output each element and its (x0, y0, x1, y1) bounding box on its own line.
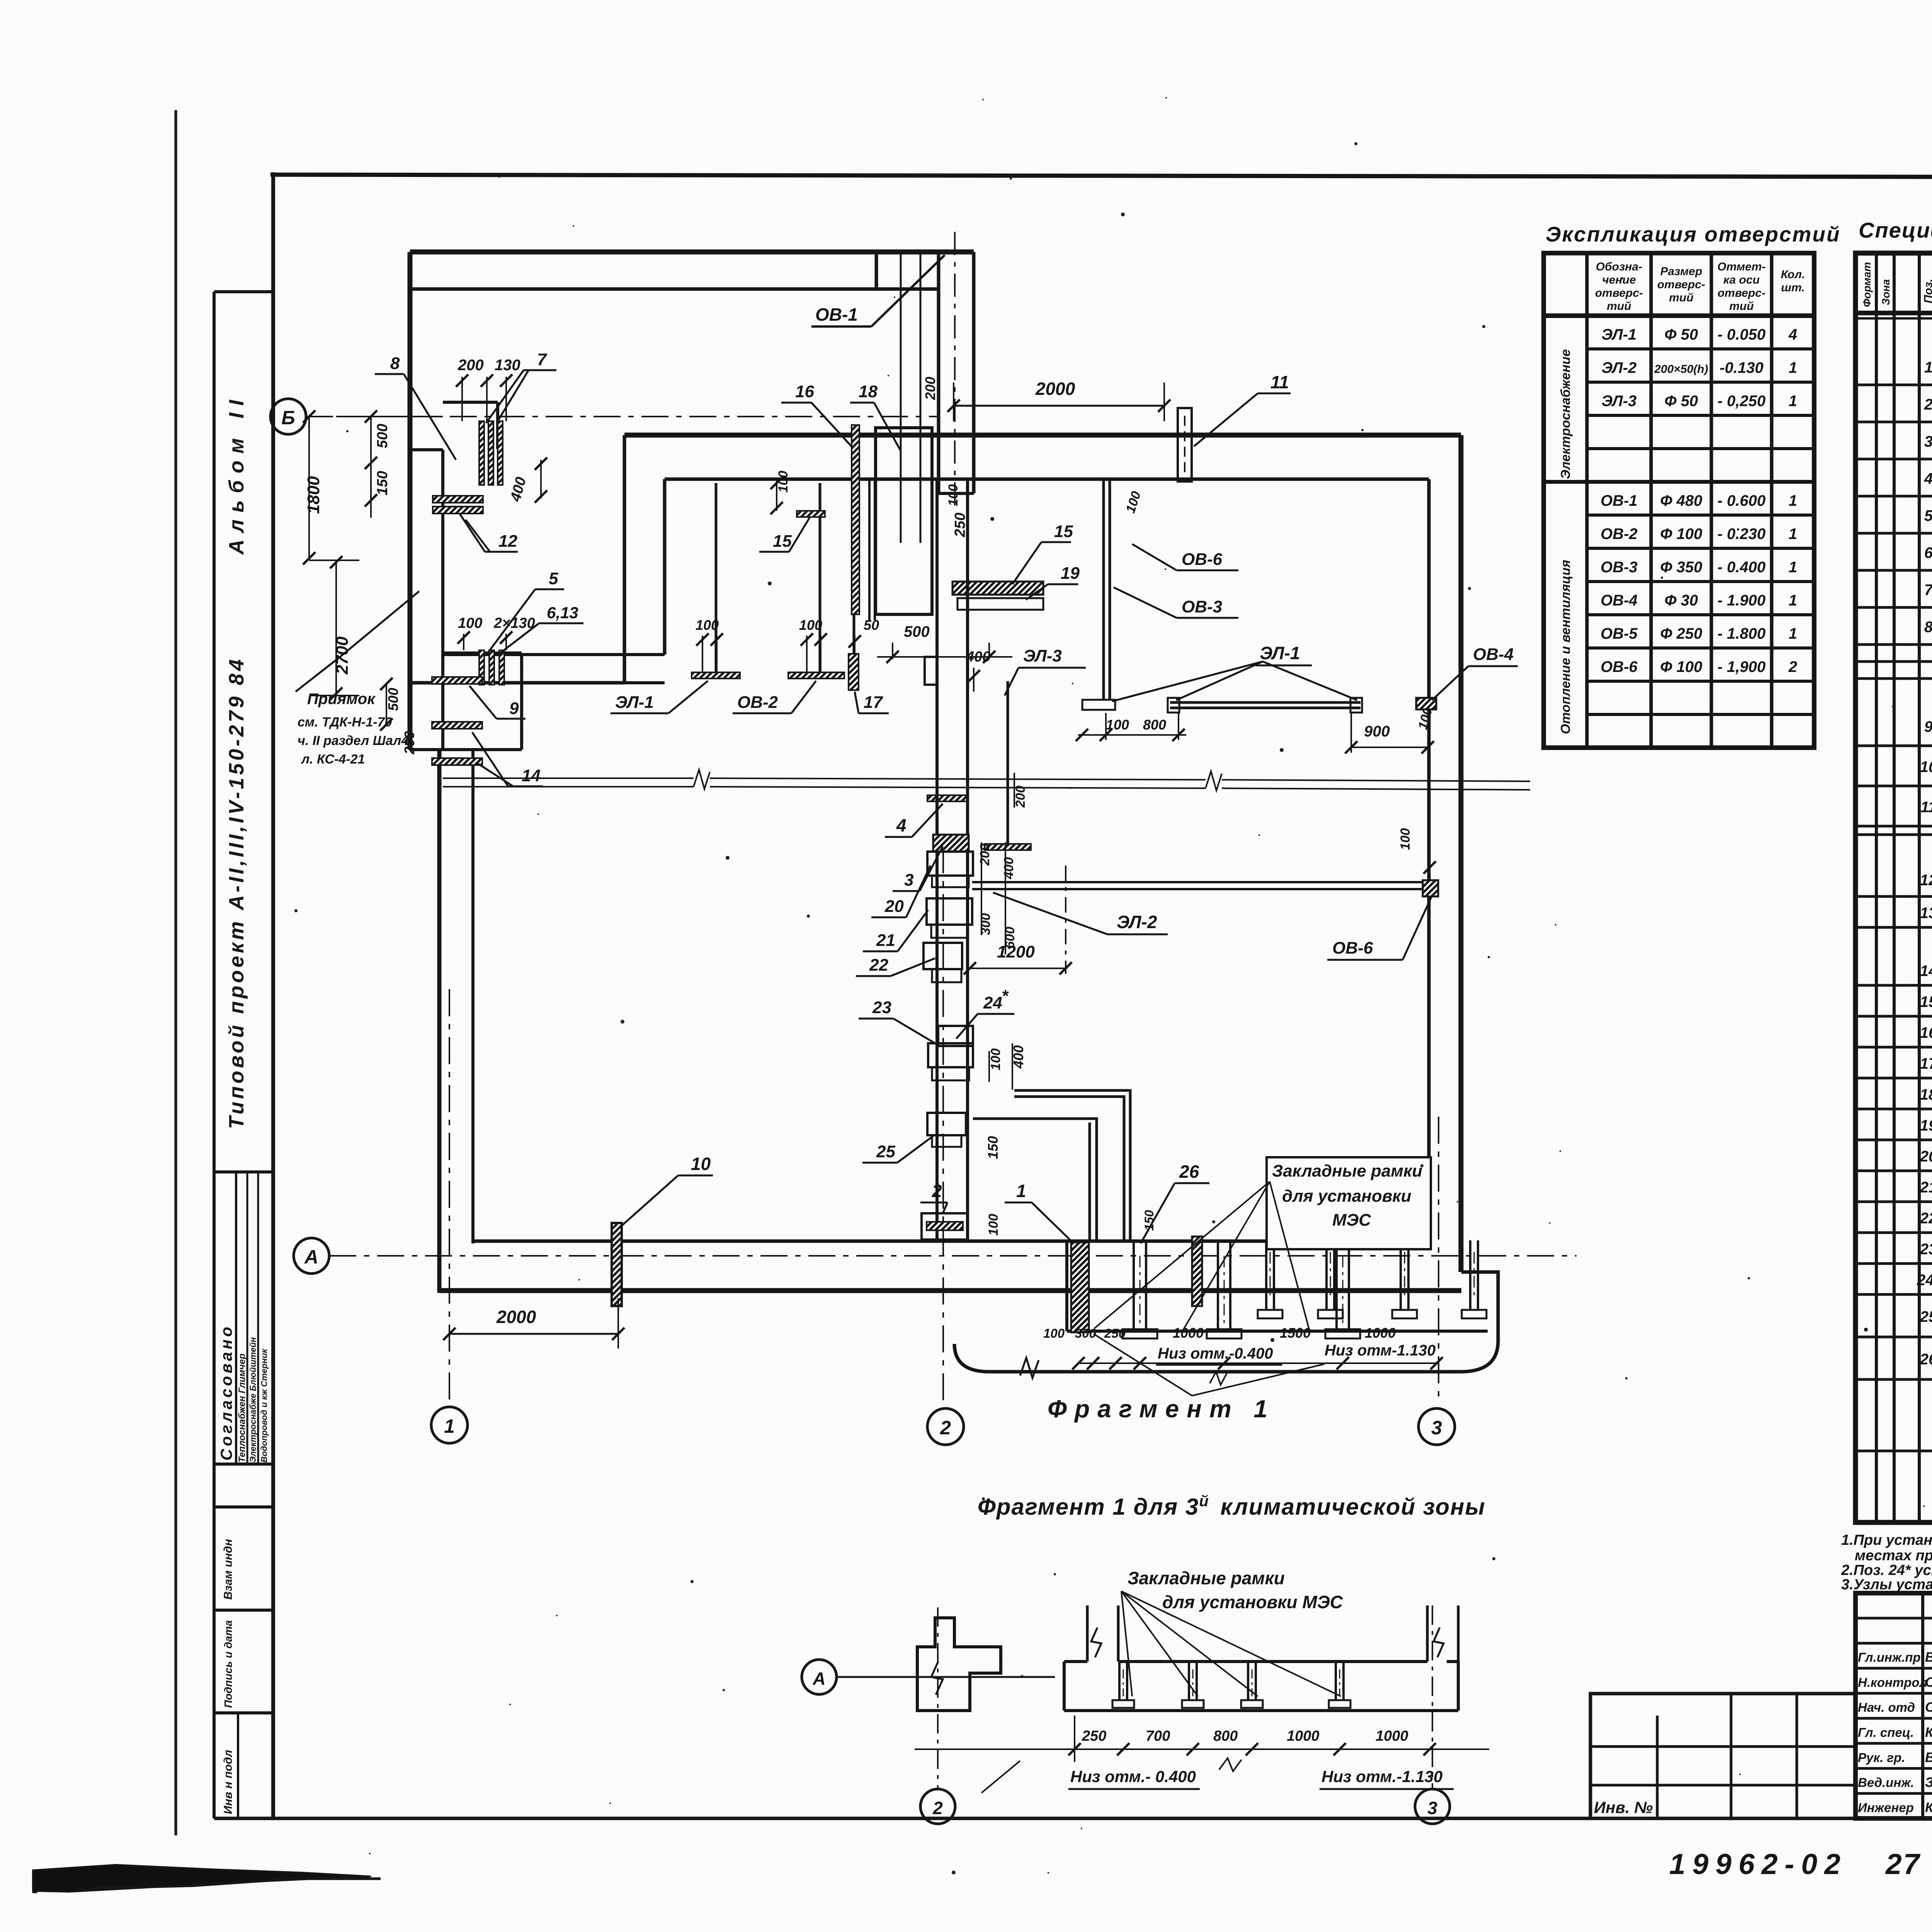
svg-text:26: 26 (1179, 1162, 1199, 1182)
axis 2 line and circle fragment2 (937, 1607, 939, 1789)
svg-text:1500: 1500 (1280, 1325, 1311, 1341)
embed 10 (612, 1154, 713, 1306)
svg-text:ЭЛ-2: ЭЛ-2 (1117, 912, 1157, 932)
wall right outer (1459, 435, 1464, 1272)
svg-text:местах прохода вертикальных: местах прохода вертикальных стержней арм… (1855, 1548, 1932, 1564)
axis 3 circle (1418, 1408, 1455, 1445)
niz otm labels (1094, 1334, 1435, 1396)
wall mid band inner (665, 478, 1429, 481)
svg-text:1: 1 (1016, 1181, 1026, 1201)
title block left attachment (1590, 1694, 1855, 1818)
svg-text:800: 800 (1143, 717, 1166, 733)
svg-text:19962-02: 19962-02 (1669, 1848, 1847, 1880)
svg-text:500: 500 (904, 623, 930, 640)
dim 2000 top (947, 379, 1170, 421)
pilaster upper with embeds 7,8,12 (433, 402, 503, 514)
svg-text:1.При установке закладных р: 1.При установке закладных рамок полки уг… (1841, 1532, 1932, 1548)
svg-text:15: 15 (1920, 993, 1932, 1010)
svg-text:1: 1 (444, 1415, 455, 1437)
svg-text:1800: 1800 (304, 476, 323, 514)
svg-text:1000: 1000 (1173, 1325, 1204, 1341)
embeds 23 24 25 column lower (859, 986, 1026, 1163)
embed 16 tall bar and 18 rect (781, 377, 968, 614)
axis B line (306, 416, 939, 417)
svg-text:100: 100 (988, 1048, 1003, 1070)
svg-text:3: 3 (1431, 1417, 1442, 1439)
svg-text:500: 500 (385, 688, 401, 711)
embeds 3,20,21,22 column (856, 835, 1017, 982)
fragment 2 detail (802, 1568, 1489, 1824)
svg-text:тий: тий (1669, 291, 1693, 304)
scan speckles (294, 97, 1932, 1902)
svg-text:Низ отм.-1.130: Низ отм.-1.130 (1321, 1767, 1442, 1786)
svg-text:2: 2 (1788, 658, 1797, 675)
svg-text:Обозна-: Обозна- (1596, 260, 1642, 273)
partition EL-3 (966, 646, 1086, 850)
axis A circle fragment2 (802, 1660, 837, 1694)
svg-text:4: 4 (896, 815, 906, 835)
svg-text:Ф 350: Ф 350 (1660, 559, 1702, 576)
axis 2 line (942, 846, 944, 1403)
svg-text:Экспликация отверстий: Экспликация отверстий (1546, 222, 1841, 246)
svg-text:Размер: Размер (1660, 265, 1702, 278)
svg-text:ОВ-1: ОВ-1 (815, 304, 858, 325)
svg-text:3.Узлы установки закладных: 3.Узлы установки закладных деталей КПК с… (1841, 1577, 1932, 1593)
svg-text:Ф 250: Ф 250 (1660, 625, 1702, 642)
soglasovano block (217, 1172, 269, 1464)
left cross section (917, 1618, 1001, 1711)
EL-2 run (964, 866, 1430, 975)
svg-text:Низ отм.-0.400: Низ отм.-0.400 (1158, 1345, 1273, 1362)
svg-text:Кол.: Кол. (1781, 268, 1805, 281)
axis 2 circle (927, 1408, 964, 1445)
svg-text:17: 17 (1920, 1055, 1932, 1072)
embeds 9 and 14 on left wall (380, 677, 543, 786)
svg-text:1200: 1200 (997, 942, 1035, 961)
axis 3 line (1438, 1117, 1439, 1403)
svg-text:Ф 480: Ф 480 (1660, 492, 1702, 509)
svg-text:Закладные рамки: Закладные рамки (1272, 1162, 1422, 1180)
svg-text:Рук. гр.: Рук. гр. (1858, 1750, 1905, 1765)
table 2 specification (1855, 218, 1932, 1522)
svg-text:- 1.800: - 1.800 (1718, 625, 1766, 642)
labels 8 7 12 dims 200 130 (375, 350, 556, 552)
wall right inner (1427, 479, 1431, 1241)
svg-text:11: 11 (1270, 372, 1289, 392)
axis 1 line (449, 989, 450, 1403)
zakladnye ramki note plan (1094, 1157, 1431, 1332)
svg-text:10: 10 (691, 1154, 711, 1174)
svg-text:26: 26 (1920, 1351, 1932, 1368)
svg-text:Ф 50: Ф 50 (1665, 393, 1698, 410)
apron outline bottom right (954, 1272, 1498, 1378)
svg-text:Инв н подл: Инв н подл (222, 1750, 235, 1814)
svg-text:5: 5 (549, 569, 558, 588)
svg-text:Вед.инж.: Вед.инж. (1858, 1776, 1914, 1790)
OV-6 embed right wall (1327, 828, 1438, 960)
foundation embeds bottom (1192, 1236, 1486, 1318)
foundation strip and embeds (1067, 1241, 1488, 1338)
bottom-left room bottom wall (410, 681, 624, 685)
embeds 15,19 right cluster (877, 484, 1080, 663)
svg-text:Гл.инж.пр: Гл.инж.пр (1858, 1650, 1921, 1665)
wall top-left inner (410, 287, 939, 291)
svg-text:Согласовано: Согласовано (217, 1324, 235, 1461)
svg-text:Альбом II: Альбом II (225, 393, 248, 555)
svg-text:- 0.600: - 0.600 (1718, 492, 1766, 509)
svg-text:ЭЛ-1: ЭЛ-1 (1260, 643, 1300, 663)
bottom wall outer (439, 1288, 1461, 1293)
wall left inner (441, 450, 444, 750)
svg-text:-0.130: -0.130 (1719, 359, 1763, 376)
svg-text:3: 3 (1427, 1798, 1437, 1818)
wall axis2 verticals (925, 479, 968, 1241)
svg-text:200×50(h): 200×50(h) (1654, 363, 1708, 376)
svg-text:ч. II раздел Шал4: ч. II раздел Шал4 (298, 733, 408, 748)
svg-text:- 0,250: - 0,250 (1718, 393, 1766, 410)
wall left outer (408, 252, 413, 750)
svg-text:9: 9 (509, 699, 519, 718)
svg-text:чение: чение (1602, 274, 1636, 286)
svg-text:- 0.050: - 0.050 (1718, 326, 1766, 343)
left sidebar stamp column (214, 292, 273, 1818)
svg-text:ОВ-6: ОВ-6 (1182, 550, 1223, 569)
svg-text:Низ отм.- 0.400: Низ отм.- 0.400 (1070, 1767, 1196, 1786)
svg-text:2000: 2000 (496, 1307, 536, 1327)
svg-text:21: 21 (1920, 1179, 1932, 1196)
svg-text:Электроснабже Блюйштейн: Электроснабже Блюйштейн (248, 1337, 258, 1463)
interior partition EL-1 (611, 483, 740, 713)
svg-text:отверс-: отверс- (1657, 278, 1705, 291)
svg-text:ОВ-3: ОВ-3 (1600, 559, 1638, 576)
svg-text:ка оси: ка оси (1723, 274, 1760, 286)
svg-text:700: 700 (1146, 1728, 1170, 1744)
svg-text:1000: 1000 (1376, 1728, 1408, 1744)
svg-text:ОВ-2: ОВ-2 (1600, 526, 1638, 543)
svg-text:Отмет-: Отмет- (1717, 260, 1765, 273)
svg-text:- 0.230: - 0.230 (1718, 526, 1766, 543)
svg-text:л. КС-4-21: л. КС-4-21 (301, 752, 365, 767)
svg-text:Ф 100: Ф 100 (1660, 526, 1702, 543)
OV-1 duct shaft (937, 252, 940, 493)
pilaster lower with embeds 5,6,13 (443, 650, 522, 685)
svg-text:*: * (1002, 986, 1009, 1005)
svg-text:27: 27 (1885, 1848, 1921, 1880)
axis A line (329, 1255, 1577, 1257)
svg-text:для установки МЭС: для установки МЭС (1162, 1592, 1343, 1612)
svg-text:ОВ-1: ОВ-1 (1600, 492, 1638, 509)
svg-text:2: 2 (940, 1417, 951, 1439)
svg-text:23: 23 (1920, 1241, 1932, 1258)
svg-text:ЭЛ-3: ЭЛ-3 (1602, 393, 1637, 410)
svg-text:8: 8 (390, 354, 400, 373)
interior partition OV-2 (733, 483, 844, 713)
svg-text:11: 11 (1920, 799, 1932, 816)
svg-text:150: 150 (985, 1136, 1001, 1159)
svg-text:Электроснабжение: Электроснабжение (1558, 349, 1573, 479)
svg-text:130: 130 (495, 357, 520, 374)
svg-text:200: 200 (1013, 786, 1028, 808)
svg-text:Низ отм-1.130: Низ отм-1.130 (1325, 1342, 1435, 1359)
svg-text:14: 14 (1920, 963, 1932, 980)
building plan fragment 1 (270, 232, 1577, 1445)
svg-text:ОВ-4: ОВ-4 (1473, 645, 1514, 664)
svg-text:тий: тий (1607, 300, 1631, 313)
svg-text:17: 17 (864, 693, 883, 712)
wall mid band outer (624, 433, 1461, 438)
svg-text:2.Поз. 24* устанавливается т: 2.Поз. 24* устанавливается только в 3 кл… (1841, 1562, 1932, 1578)
svg-text:ОВ-4: ОВ-4 (1600, 592, 1638, 609)
svg-text:2: 2 (1924, 396, 1932, 413)
svg-text:100: 100 (986, 1214, 1001, 1236)
axis 1 circle (431, 1407, 468, 1443)
svg-text:Подпись и дата: Подпись и дата (222, 1620, 234, 1708)
inv n podl block (237, 1713, 239, 1818)
svg-text:А: А (812, 1668, 825, 1689)
svg-text:20: 20 (1920, 1148, 1932, 1165)
svg-text:100: 100 (1123, 490, 1144, 515)
embed 1 and 26 labels (1005, 1162, 1209, 1246)
svg-text:250: 250 (1104, 1326, 1126, 1340)
svg-text:1: 1 (1924, 359, 1932, 376)
svg-text:9: 9 (1924, 718, 1932, 735)
svg-text:А: А (304, 1246, 318, 1268)
svg-text:для установки: для установки (1282, 1187, 1412, 1206)
dim 2000 bottom left (443, 1298, 624, 1349)
embed OV-4 on right wall (1416, 645, 1518, 709)
axis A circle (294, 1238, 329, 1274)
dims under foundation (1043, 1325, 1443, 1369)
conduit L-paths (973, 1090, 1130, 1241)
svg-text:Зона: Зона (1880, 279, 1892, 305)
svg-text:- 0.400: - 0.400 (1718, 559, 1766, 576)
svg-text:1000: 1000 (1365, 1325, 1396, 1341)
svg-text:Формат: Формат (1861, 262, 1873, 307)
svg-text:900: 900 (1364, 723, 1390, 740)
svg-text:13: 13 (1920, 905, 1932, 922)
svg-text:400: 400 (507, 475, 529, 503)
svg-text:22: 22 (1920, 1210, 1932, 1227)
svg-text:ЭЛ-3: ЭЛ-3 (1023, 646, 1062, 665)
svg-text:ОВ-5: ОВ-5 (1600, 625, 1638, 642)
embed 15 left pair (759, 471, 825, 552)
svg-text:1: 1 (1789, 359, 1797, 376)
svg-text:400: 400 (966, 649, 990, 665)
svg-text:21: 21 (876, 931, 895, 950)
svg-text:Б: Б (281, 407, 295, 429)
break lines (443, 770, 1530, 791)
svg-text:- 1.900: - 1.900 (1718, 592, 1766, 609)
svg-text:100: 100 (696, 617, 719, 633)
svg-text:16: 16 (795, 382, 814, 401)
svg-text:25: 25 (876, 1142, 895, 1161)
svg-text:3: 3 (904, 871, 913, 889)
svg-text:ОВ-6: ОВ-6 (1332, 939, 1373, 957)
axis B circle (270, 399, 306, 434)
svg-text:Инв. №: Инв. № (1594, 1798, 1653, 1816)
mid band left end leg (623, 435, 626, 683)
svg-text:Фрагмент 1: Фрагмент 1 (1048, 1395, 1275, 1423)
svg-text:100: 100 (799, 617, 822, 633)
svg-text:100: 100 (946, 484, 961, 506)
svg-text:18: 18 (1920, 1086, 1932, 1103)
svg-text:24*: 24* (1917, 1272, 1932, 1289)
svg-text:Закладные рамки: Закладные рамки (1128, 1568, 1285, 1588)
svg-text:Нач. отд: Нач. отд (1858, 1700, 1915, 1714)
svg-text:ОВ-2: ОВ-2 (737, 693, 778, 712)
svg-text:1: 1 (1789, 526, 1797, 543)
svg-text:шт.: шт. (1781, 281, 1804, 294)
svg-text:300: 300 (978, 913, 993, 935)
svg-text:1: 1 (1789, 393, 1797, 410)
svg-text:15: 15 (1054, 522, 1073, 541)
svg-text:1: 1 (1789, 559, 1797, 576)
svg-text:7: 7 (537, 350, 548, 369)
svg-text:250: 250 (952, 513, 968, 537)
svg-text:ЭЛ-1: ЭЛ-1 (1602, 326, 1637, 343)
svg-text:150: 150 (374, 471, 391, 495)
svg-text:4: 4 (1924, 470, 1932, 487)
embed 4 on axis2 wall (885, 795, 968, 837)
svg-text:2000: 2000 (1035, 379, 1075, 399)
svg-text:22: 22 (869, 956, 888, 975)
interior partition 17 (849, 479, 889, 713)
svg-text:Васильев: Васильев (1925, 1650, 1932, 1665)
svg-text:19: 19 (1061, 564, 1080, 583)
svg-text:Приямок: Приямок (307, 690, 376, 707)
svg-text:Ф 30: Ф 30 (1665, 592, 1698, 609)
svg-text:Взам индн: Взам индн (222, 1539, 235, 1600)
svg-text:отверс-: отверс- (1718, 287, 1765, 299)
svg-text:100: 100 (1043, 1326, 1065, 1340)
svg-text:24: 24 (983, 993, 1002, 1012)
title block (1590, 1593, 1932, 1880)
svg-text:1: 1 (1789, 492, 1797, 509)
svg-text:8: 8 (1924, 619, 1932, 636)
svg-text:14: 14 (522, 766, 541, 785)
svg-text:2: 2 (932, 1181, 942, 1201)
svg-text:200: 200 (922, 377, 938, 400)
svg-text:- 1,900: - 1,900 (1718, 658, 1766, 675)
svg-text:ЭЛ-2: ЭЛ-2 (1602, 359, 1637, 376)
svg-text:100: 100 (1398, 828, 1413, 850)
svg-text:100: 100 (458, 615, 482, 631)
svg-text:отверс-: отверс- (1595, 287, 1643, 299)
svg-text:Спецификация элементов к сх: Спецификация элементов к схеме расположе… (1859, 218, 1932, 242)
svg-text:300: 300 (1075, 1326, 1097, 1340)
svg-text:ОВ-6: ОВ-6 (1600, 658, 1638, 675)
svg-text:Ф 100: Ф 100 (1660, 658, 1702, 675)
svg-text:16: 16 (1920, 1024, 1932, 1041)
svg-text:см. ТДК-Н-1-70: см. ТДК-Н-1-70 (298, 715, 392, 730)
EL-1 horizontal embed run right hall (1076, 643, 1435, 753)
notes under specification table (1841, 1532, 1932, 1593)
svg-text:Н.контрол: Н.контрол (1858, 1675, 1927, 1689)
svg-text:150: 150 (1142, 1210, 1156, 1231)
svg-text:200: 200 (978, 844, 992, 866)
embed 11 on mid band (1178, 372, 1291, 481)
left wall dims 500 150 1800 2700 (303, 410, 443, 700)
svg-text:Инженер: Инженер (1858, 1800, 1914, 1815)
bottom wall inner (473, 1240, 1429, 1243)
OV-3 duct pair (1104, 479, 1238, 700)
svg-text:50: 50 (864, 617, 879, 633)
svg-text:200: 200 (457, 357, 484, 374)
right foundation strip (1063, 1662, 1066, 1711)
svg-text:Теплоснабжен Глимчер: Теплоснабжен Глимчер (237, 1354, 247, 1463)
svg-text:800: 800 (1213, 1728, 1238, 1744)
svg-text:Фрагмент 1 для 3й климатиче: Фрагмент 1 для 3й климатической зоны (978, 1493, 1486, 1520)
wall stubs with break (1086, 1605, 1089, 1662)
svg-text:Зубава: Зубава (1925, 1775, 1932, 1790)
svg-text:12: 12 (498, 532, 517, 551)
svg-text:20: 20 (884, 897, 904, 916)
svg-text:Типовой проект А-II,III,IV-1: Типовой проект А-II,III,IV-150-279 84 (225, 656, 248, 1129)
svg-text:Отопление и вентиляция: Отопление и вентиляция (1558, 560, 1573, 734)
svg-text:Ф 50: Ф 50 (1665, 326, 1698, 343)
svg-text:2: 2 (932, 1798, 943, 1818)
svg-text:12: 12 (1920, 872, 1932, 889)
svg-text:3: 3 (1924, 433, 1932, 450)
svg-text:250: 250 (1082, 1728, 1106, 1744)
embed 1 vertical at foundation start (1192, 1236, 1202, 1306)
svg-text:Водопровод и кж Стерник: Водопровод и кж Стерник (259, 1348, 269, 1463)
svg-text:1000: 1000 (1287, 1728, 1320, 1744)
svg-text:ЭЛ-1: ЭЛ-1 (615, 693, 654, 712)
embeds in strip (1118, 1662, 1121, 1700)
embed 2 (920, 1181, 1001, 1240)
svg-text:5: 5 (1924, 507, 1932, 524)
svg-text:Васильева: Васильева (1925, 1750, 1932, 1765)
svg-text:Поз.: Поз. (1922, 279, 1932, 303)
svg-text:500: 500 (374, 424, 391, 448)
svg-text:1: 1 (1789, 625, 1797, 642)
svg-text:6: 6 (1924, 544, 1932, 561)
svg-text:Силаева: Силаева (1925, 1675, 1932, 1690)
dims 100 2x130 labels 5 6,13 (457, 569, 583, 654)
svg-text:15: 15 (773, 532, 792, 551)
svg-text:400: 400 (1002, 857, 1016, 879)
axis 3 fragment2 (1432, 1605, 1433, 1789)
svg-text:Кореневский: Кореневский (1925, 1725, 1932, 1740)
svg-text:Одиноков: Одиноков (1925, 1700, 1932, 1715)
priyamok pit (441, 683, 444, 750)
svg-text:МЭС: МЭС (1332, 1211, 1371, 1230)
svg-text:тий: тий (1729, 300, 1753, 313)
svg-text:7: 7 (1924, 582, 1932, 599)
svg-text:10: 10 (1920, 759, 1932, 776)
tambour inner verticals (900, 252, 902, 543)
wall top-left outer (410, 250, 974, 255)
svg-text:19: 19 (1920, 1117, 1932, 1134)
svg-text:6,13: 6,13 (547, 604, 578, 622)
svg-text:25: 25 (1920, 1308, 1932, 1325)
svg-text:1: 1 (1789, 592, 1797, 609)
priyamok annotation (296, 591, 419, 767)
bottom-left smudge (33, 1865, 371, 1892)
svg-text:Кубышкина: Кубышкина (1925, 1800, 1932, 1815)
svg-text:23: 23 (872, 998, 891, 1017)
svg-text:Гл. спец.: Гл. спец. (1858, 1725, 1914, 1740)
svg-text:18: 18 (859, 382, 878, 401)
svg-text:4: 4 (1788, 326, 1797, 343)
table 1 explication of openings (1544, 222, 1841, 748)
svg-text:ОВ-3: ОВ-3 (1182, 597, 1222, 616)
